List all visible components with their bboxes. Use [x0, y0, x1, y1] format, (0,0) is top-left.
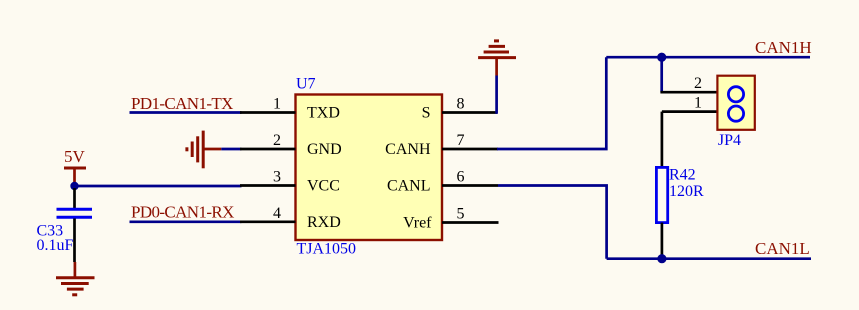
wire CAN1H: [606, 56, 810, 59]
svg-text:7: 7: [457, 132, 465, 149]
connector JP4 body: [717, 76, 754, 149]
pin 5 Vref: [403, 206, 498, 232]
resistor R42: [656, 112, 704, 259]
connector JP4 pin 2: [660, 75, 717, 92]
svg-text:RXD: RXD: [307, 214, 341, 231]
pin 2 GND: [240, 132, 342, 158]
svg-text:4: 4: [273, 205, 281, 222]
ground (signal, on pin 2): [187, 131, 221, 169]
svg-text:S: S: [422, 105, 431, 122]
svg-text:U7: U7: [296, 75, 316, 92]
svg-text:GND: GND: [307, 141, 342, 158]
svg-text:5: 5: [457, 206, 465, 223]
svg-text:0.1uF: 0.1uF: [37, 237, 74, 254]
svg-text:3: 3: [273, 169, 281, 186]
wire gnd to pin 8: [495, 76, 498, 114]
svg-text:VCC: VCC: [307, 178, 340, 195]
svg-text:2: 2: [273, 132, 281, 149]
pin 7 CANH: [385, 132, 498, 158]
svg-text:120R: 120R: [669, 183, 704, 200]
wire CAN1L: [607, 257, 811, 260]
svg-text:CANH: CANH: [385, 141, 431, 158]
svg-text:Vref: Vref: [403, 215, 432, 232]
node CAN1L junction: [657, 254, 666, 263]
svg-text:CANL: CANL: [387, 178, 431, 195]
wire pin6 to CAN1L riser: [498, 186, 607, 259]
svg-text:TXD: TXD: [307, 105, 340, 122]
svg-text:8: 8: [457, 96, 465, 113]
ground (earth, below C33): [56, 262, 95, 295]
node CAN1H junction: [657, 53, 666, 62]
wire net GND to pin 2: [221, 148, 241, 151]
capacitor C33: [37, 188, 93, 262]
svg-text:1: 1: [694, 95, 702, 112]
svg-text:5V: 5V: [64, 147, 86, 166]
svg-text:PD0-CAN1-RX: PD0-CAN1-RX: [131, 202, 234, 221]
wire pin7 to CAN1H riser: [497, 57, 606, 149]
node 5V/C33/VCC junction: [70, 182, 78, 190]
wire net PD0-CAN1-RX: [130, 220, 242, 223]
pin 8 S: [422, 96, 497, 122]
svg-text:R42: R42: [669, 167, 696, 184]
pin 4 RXD: [240, 205, 341, 231]
pin 1 TXD: [240, 96, 340, 122]
connector JP4 pin 1: [662, 95, 718, 112]
svg-text:CAN1H: CAN1H: [755, 38, 812, 57]
power 5V: [64, 147, 86, 183]
wire net PD1-CAN1-TX: [130, 111, 242, 114]
ground (earth, above pin 8): [478, 41, 516, 76]
svg-text:2: 2: [694, 75, 702, 92]
svg-text:1: 1: [273, 96, 281, 113]
wire junction to JP4 pin 2: [660, 57, 663, 92]
svg-text:6: 6: [457, 169, 465, 186]
wire VCC net: [75, 185, 242, 188]
svg-text:CAN1L: CAN1L: [755, 239, 810, 258]
pin 3 VCC: [240, 169, 340, 195]
svg-text:PD1-CAN1-TX: PD1-CAN1-TX: [131, 94, 233, 113]
pin 6 CANL: [387, 169, 498, 195]
op-amp U7 chip body TJA1050: [296, 75, 443, 257]
svg-text:JP4: JP4: [718, 132, 741, 149]
svg-text:TJA1050: TJA1050: [297, 241, 357, 258]
